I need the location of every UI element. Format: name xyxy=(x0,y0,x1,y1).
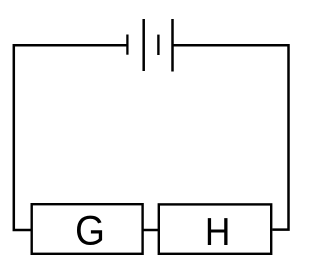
wire: top-left from battery negative terminal, down left side, to lamp G xyxy=(14,45,128,230)
battery B1 short plate (cell 2 negative) xyxy=(157,35,159,55)
label G xyxy=(77,216,102,245)
battery B1 long plate (cell 1 positive) xyxy=(142,19,145,71)
lamp G box xyxy=(32,204,143,254)
label H xyxy=(208,218,228,245)
battery B1 long plate (cell 2 positive) xyxy=(171,19,174,72)
battery B1 short plate (cell 1 negative) xyxy=(126,35,128,55)
lamp H box xyxy=(159,204,271,253)
wire: from battery positive terminal, right side down, to lamp H xyxy=(173,45,289,229)
wire: between lamp G and lamp H xyxy=(143,229,159,232)
